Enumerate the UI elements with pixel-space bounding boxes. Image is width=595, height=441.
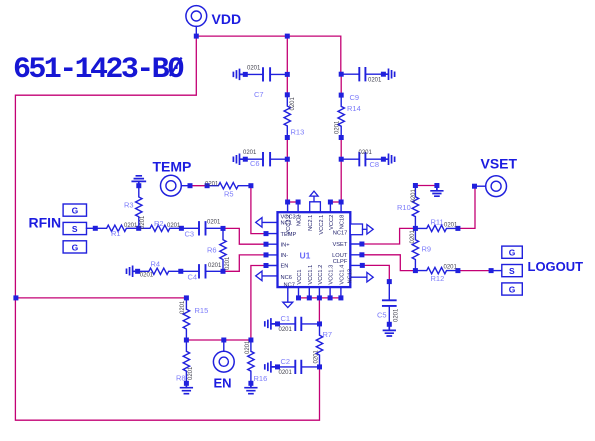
wire top pin jumper left [288, 201, 299, 203]
svg-text:R12: R12 [431, 274, 445, 283]
svg-text:0201: 0201 [247, 66, 261, 72]
junction node C5 gnd [387, 322, 392, 327]
junction pin VSET [359, 242, 364, 247]
port EN circle [213, 340, 234, 372]
junction pin U1 bot2 [296, 295, 301, 300]
resistor R10 [412, 186, 418, 229]
junction pin EN [264, 263, 269, 268]
svg-text:VCC3.2: VCC3.2 [286, 215, 292, 235]
svg-text:S: S [509, 266, 515, 276]
ground for C7 [233, 70, 245, 80]
svg-text:R3: R3 [124, 201, 134, 210]
ground for C1 [265, 319, 278, 329]
svg-text:G: G [509, 285, 516, 295]
svg-text:R6: R6 [207, 245, 217, 254]
power arrow up on U1 top [310, 191, 321, 212]
svg-text:NC13: NC13 [347, 269, 353, 284]
svg-text:EN: EN [214, 376, 232, 391]
junction node R14 top [339, 93, 344, 98]
junction node RFIN S [93, 226, 98, 231]
junction node C9-rail [339, 72, 344, 77]
pin NC6 arrow port [256, 271, 262, 281]
svg-text:C3: C3 [185, 229, 195, 238]
ground for C8 [383, 154, 394, 164]
junction node C9 gnd [381, 72, 386, 77]
svg-text:0201: 0201 [167, 223, 181, 229]
resistor R8 [183, 340, 189, 383]
svg-text:R16: R16 [254, 374, 268, 383]
junction node C5 top [387, 279, 392, 284]
wire R5 to TEMP pin [251, 187, 266, 234]
svg-text:NC7: NC7 [284, 282, 295, 288]
capacitor C6 [245, 153, 287, 165]
svg-text:0201: 0201 [188, 366, 194, 380]
svg-text:R8: R8 [176, 373, 186, 382]
resistor R13 [284, 95, 290, 138]
pin NC17 box port [350, 224, 362, 235]
svg-text:C2: C2 [281, 357, 291, 366]
U1 bottom rotated pin labels [297, 265, 353, 285]
svg-text:0201: 0201 [245, 340, 251, 354]
junction node C3-R6 [221, 226, 226, 231]
svg-text:NC18: NC18 [340, 215, 346, 230]
title text 651-1423-B0 [13, 53, 184, 87]
svg-text:VCC2.1: VCC2.1 [319, 215, 325, 235]
wire TEMP port to R5 [190, 185, 207, 187]
junction pin IN- [264, 252, 269, 257]
svg-text:R15: R15 [195, 306, 209, 315]
wire top pin jumper right [330, 201, 341, 203]
capacitor C3 [181, 222, 223, 234]
svg-text:NC17: NC17 [333, 231, 348, 237]
svg-text:0201: 0201 [411, 188, 417, 202]
svg-text:C5: C5 [377, 310, 387, 319]
resistor R11 [415, 225, 458, 231]
capacitor C4 [181, 265, 223, 277]
connector RFIN G box top [63, 204, 86, 216]
wire bottom pins jumper [299, 297, 341, 299]
U1 left pin labels [281, 215, 301, 289]
svg-text:R9: R9 [422, 245, 432, 254]
svg-text:G: G [72, 242, 79, 252]
junction node R12 right [455, 268, 460, 273]
svg-text:C4: C4 [188, 272, 198, 281]
connector LOGOUT G box bottom [502, 283, 523, 295]
capacitor C2 [278, 361, 320, 373]
svg-text:LOGOUT: LOGOUT [528, 259, 584, 274]
svg-text:0201: 0201 [140, 273, 154, 279]
junction node C2 gnd [275, 364, 280, 369]
svg-text:G: G [509, 248, 516, 258]
svg-text:0201: 0201 [290, 96, 296, 110]
junction node C7-rail [285, 72, 290, 77]
junction node R15 top [184, 295, 189, 300]
resistor R3 [136, 186, 142, 229]
resistor R16 [248, 340, 254, 383]
pin NC17 box lead [363, 228, 367, 230]
junction node C4-R6 [221, 269, 226, 274]
svg-text:C8: C8 [370, 160, 380, 169]
resistor R9 [412, 228, 418, 270]
junction node R16 gnd [248, 381, 253, 386]
junction node R5 right [248, 183, 253, 188]
ground for C4 row [127, 266, 138, 276]
svg-text:G: G [72, 206, 79, 216]
svg-text:VDD: VDD [212, 11, 242, 27]
pin NC1 arrow port [256, 218, 262, 228]
junction node R5 left [205, 183, 210, 188]
ground for C2 [265, 362, 278, 372]
svg-text:0201: 0201 [124, 223, 138, 229]
junction node EN port [221, 338, 226, 343]
ground above R3 (flipped) [132, 176, 145, 186]
ground for C6 [233, 154, 245, 164]
resistor R4 [138, 268, 181, 274]
svg-text:R11: R11 [431, 217, 444, 226]
port VDD circle [186, 6, 207, 36]
wire VDD branch to C7 rail [286, 36, 288, 74]
svg-text:VCC1.4: VCC1.4 [339, 265, 345, 285]
resistor R15 [183, 298, 189, 340]
U1 right pin stubs [350, 244, 367, 277]
svg-text:C1: C1 [281, 314, 291, 323]
wire C3 to IN+ pin [223, 228, 266, 244]
junction node C1-R7 [317, 321, 322, 326]
svg-text:VCC1.3: VCC1.3 [329, 265, 335, 285]
wire R11 to VSET port [458, 186, 475, 228]
junction node TEMP port [188, 183, 193, 188]
junction pin U1 bot6 [338, 295, 343, 300]
connector LOGOUT G box top [502, 246, 523, 258]
capacitor C5 [383, 282, 396, 325]
ground for C9 [383, 69, 394, 79]
junction pin U1 top2 [296, 200, 301, 205]
junction pin U1 bot5 [328, 295, 333, 300]
svg-text:C9: C9 [350, 93, 360, 102]
junction pin CLPF [360, 263, 365, 268]
junction node C8 gnd [381, 157, 386, 162]
connector RFIN G box bottom [63, 241, 86, 253]
capacitor C9 [341, 68, 383, 80]
U1 top rotated pin labels [286, 215, 346, 235]
svg-text:VCC2: VCC2 [329, 215, 335, 230]
U1 left pin stubs [262, 222, 278, 276]
U1 bottom pin stubs [288, 287, 341, 302]
svg-text:U1: U1 [300, 251, 311, 261]
junction node R1-R2-R3 [136, 226, 141, 231]
svg-text:S: S [72, 224, 78, 234]
capacitor C7 [245, 68, 287, 80]
junction pin U1 top6 [339, 200, 344, 205]
wire to R15 [15, 297, 186, 299]
connector RFIN S lead [87, 227, 96, 229]
svg-text:0201: 0201 [243, 150, 257, 156]
resistor R7 [316, 324, 322, 367]
svg-text:0201: 0201 [410, 229, 416, 243]
wire rail left C7-R13-C6-pin [286, 74, 288, 202]
junction node C6-rail [285, 157, 290, 162]
junction node R4-C4 [178, 269, 183, 274]
junction node R7 bottom [317, 364, 322, 369]
svg-text:0201: 0201 [359, 150, 373, 156]
wire EN bus R15-EN-R16 [186, 339, 251, 341]
port VSET circle [475, 176, 507, 197]
wire bottom pins down to C1 node [318, 298, 320, 324]
junction pin U1 bot4 [317, 295, 322, 300]
junction pin U1 top1 [285, 200, 290, 205]
junction node C7 gnd [243, 72, 248, 77]
junction node R10 top [413, 183, 418, 188]
svg-text:VCC1.2: VCC1.2 [318, 265, 324, 285]
capacitor C1 [278, 318, 320, 330]
svg-text:R1: R1 [111, 229, 121, 238]
junction pin LOUT [359, 252, 364, 257]
resistor R5 [207, 183, 251, 189]
svg-text:C7: C7 [254, 90, 264, 99]
junction node loop-R15 [13, 295, 18, 300]
junction pin U1 top5 [328, 200, 333, 205]
svg-text:R10: R10 [397, 203, 411, 212]
svg-text:0201: 0201 [393, 308, 399, 322]
junction node R9 bottom [413, 268, 418, 273]
wire C4 to IN- pin [223, 255, 266, 271]
svg-text:EN: EN [281, 264, 289, 270]
ground C5 [384, 324, 396, 336]
port TEMP circle [161, 175, 191, 196]
svg-text:CLPF: CLPF [333, 259, 348, 265]
junction node R13 bottom [285, 135, 290, 140]
svg-text:VCC1.1: VCC1.1 [308, 265, 314, 285]
svg-text:0201: 0201 [180, 300, 186, 314]
connector LOGOUT S lead [491, 270, 502, 272]
junction node R13 top [285, 92, 290, 97]
svg-text:R13: R13 [291, 128, 305, 137]
resistor R6 [220, 228, 226, 271]
svg-text:VSET: VSET [332, 242, 347, 248]
pin NC13 arrow port [367, 272, 373, 282]
resistor R1 [95, 225, 138, 231]
wire VDD top rail [196, 36, 340, 74]
ground R10 [431, 186, 443, 197]
junction node R15 bottom [184, 338, 189, 343]
ground R8 [181, 383, 193, 393]
junction node C8-rail [339, 157, 344, 162]
wire VDD big loop [15, 36, 319, 420]
junction node C7 rail tap [285, 34, 290, 39]
svg-text:0201: 0201 [368, 78, 382, 84]
junction node C4 gnd [135, 269, 140, 274]
op-amp U1 body [278, 212, 351, 287]
wire R12 to LOGOUT [458, 270, 491, 272]
wire rail right C9-R14-C8-pin [340, 74, 342, 202]
connector LOGOUT S box [502, 265, 523, 277]
junction node R3 gnd [136, 183, 141, 188]
svg-text:R4: R4 [151, 259, 161, 268]
svg-text:0201: 0201 [444, 223, 458, 229]
svg-text:VSET: VSET [481, 155, 518, 171]
svg-text:R2: R2 [154, 219, 164, 228]
U1 top pin stubs [288, 202, 342, 212]
capacitor C8 [341, 153, 383, 165]
svg-text:0201: 0201 [140, 215, 146, 229]
svg-text:VCC1: VCC1 [297, 269, 303, 284]
svg-text:0201: 0201 [279, 327, 293, 333]
resistor R14 [338, 95, 344, 137]
junction node R2-C3 [179, 226, 184, 231]
svg-text:0201: 0201 [444, 265, 458, 271]
svg-text:0201: 0201 [205, 181, 219, 187]
junction pin U1 bot3 [307, 295, 312, 300]
svg-text:0201: 0201 [207, 220, 221, 226]
svg-text:NC2.1: NC2.1 [308, 215, 314, 231]
junction node LOGOUT S [489, 268, 494, 273]
resistor R2 [139, 225, 182, 231]
junction node R10 gnd [434, 183, 439, 188]
junction node VSET port [472, 184, 477, 189]
svg-text:651-1423-B0: 651-1423-B0 [13, 53, 184, 87]
wire EN pin down [251, 266, 266, 341]
wire LOUT pin to R9-R12 node [362, 255, 416, 271]
resistor R12 [415, 267, 458, 273]
svg-text:R7: R7 [323, 330, 333, 339]
svg-text:0201: 0201 [334, 120, 340, 134]
svg-text:TEMP: TEMP [153, 159, 192, 175]
svg-text:IN+: IN+ [281, 242, 291, 248]
svg-text:0201: 0201 [313, 349, 319, 363]
wire CLPF pin to C5 [362, 265, 389, 281]
power arrow down on U1 bottom [283, 302, 293, 307]
svg-text:0201: 0201 [279, 370, 293, 376]
U1 right pin labels [332, 231, 348, 265]
svg-text:IN-: IN- [281, 253, 289, 259]
junction node R9 top [413, 226, 418, 231]
wire VSET pin to R9 node [362, 228, 416, 244]
junction node R14 bottom [339, 135, 344, 140]
svg-text:C6: C6 [250, 159, 260, 168]
junction pin IN+ [264, 242, 269, 247]
junction node R16 top [248, 338, 253, 343]
wire R10 to ground [415, 185, 437, 187]
svg-text:RFIN: RFIN [29, 214, 62, 230]
svg-text:NC2: NC2 [297, 215, 303, 226]
junction node R11 right [455, 226, 460, 231]
ground R16 [245, 383, 257, 393]
connector RFIN S box [63, 222, 86, 234]
junction node C1 gnd [275, 321, 280, 326]
svg-text:NC6: NC6 [281, 275, 292, 281]
pin NC17 arrow [367, 225, 373, 235]
svg-text:0201: 0201 [208, 263, 222, 269]
junction pin TEMP [264, 231, 269, 236]
svg-text:R14: R14 [347, 104, 361, 113]
junction node C6 gnd [243, 157, 248, 162]
junction node R8 gnd [184, 381, 189, 386]
junction node VDD junction [194, 34, 199, 39]
svg-text:R5: R5 [224, 189, 234, 198]
svg-text:0201: 0201 [225, 256, 231, 270]
